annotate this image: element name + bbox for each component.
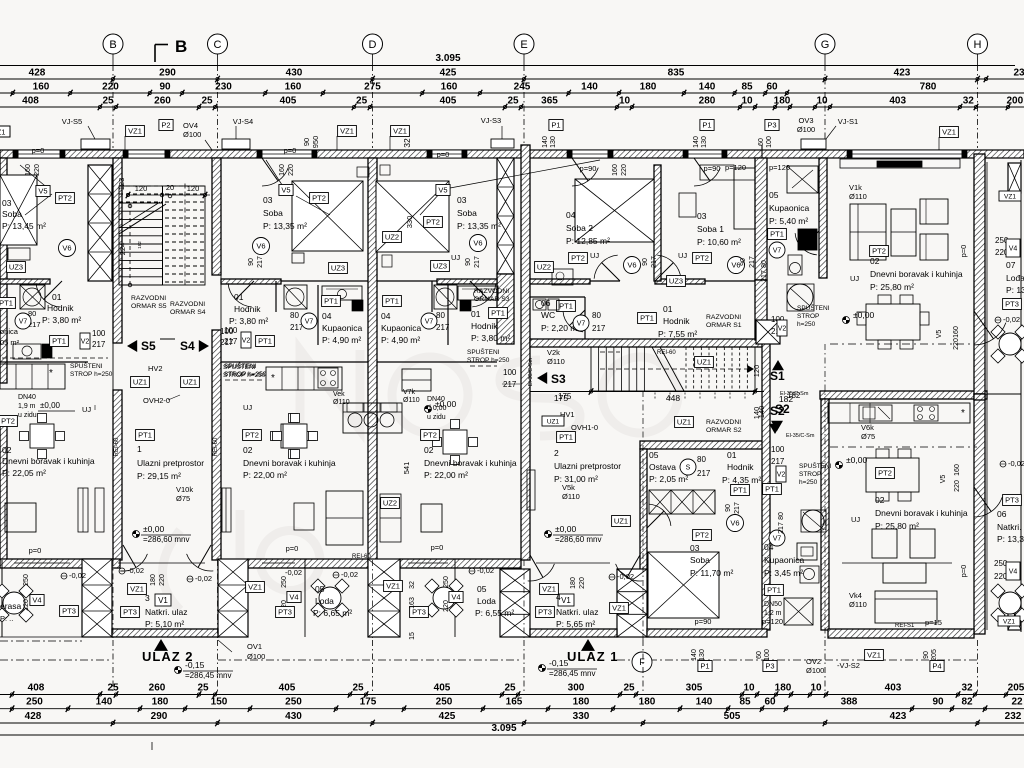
toilet+bidet unit C xyxy=(342,402,344,404)
svg-text:B: B xyxy=(175,37,187,56)
nightstand unit B xyxy=(292,253,304,263)
door soba2 top xyxy=(572,168,598,186)
svg-text:100: 100 xyxy=(220,327,234,336)
svg-text:PT1: PT1 xyxy=(733,486,747,495)
svg-text:WC: WC xyxy=(541,310,555,320)
svg-text:448: 448 xyxy=(666,393,680,403)
svg-text:217: 217 xyxy=(220,338,234,347)
svg-text:-0,02: -0,02 xyxy=(127,566,144,575)
svg-text:V6k: V6k xyxy=(861,423,874,432)
svg-text:Ø100: Ø100 xyxy=(183,130,201,139)
svg-text:140: 140 xyxy=(96,697,113,708)
svg-text:SPUŠTENI: SPUŠTENI xyxy=(797,303,830,312)
coffee table living2 xyxy=(883,563,926,583)
label VZ1 xyxy=(865,650,884,661)
svg-text:10: 10 xyxy=(619,96,631,107)
loggia round table bottom xyxy=(999,592,1021,614)
label PT2 xyxy=(310,193,329,204)
svg-text:60: 60 xyxy=(756,651,763,659)
wall xyxy=(828,629,974,638)
label V7 xyxy=(769,530,785,546)
wall pillar xyxy=(368,559,400,637)
bed unit A xyxy=(0,175,37,245)
svg-text:Ø75: Ø75 xyxy=(176,494,190,503)
svg-text:STROP h=250: STROP h=250 xyxy=(223,372,266,379)
window in top wall xyxy=(128,150,165,158)
svg-text:220: 220 xyxy=(621,164,628,176)
label PT2 xyxy=(876,468,895,479)
armchair living1 a xyxy=(920,199,948,224)
svg-text:P: 3,80 m²: P: 3,80 m² xyxy=(471,333,510,343)
svg-text:UZ1: UZ1 xyxy=(697,358,711,367)
svg-text:p=0: p=0 xyxy=(959,565,968,578)
svg-text:330: 330 xyxy=(405,216,414,229)
svg-text:=286,60 mnv: =286,60 mnv xyxy=(555,535,601,544)
dashed boundary living2 xyxy=(830,446,977,448)
svg-text:-0,02: -0,02 xyxy=(341,570,358,579)
label VZ1 xyxy=(391,126,410,137)
svg-text:V4: V4 xyxy=(32,596,41,605)
svg-text:60: 60 xyxy=(766,82,778,93)
wall xyxy=(819,158,827,278)
svg-text:80: 80 xyxy=(290,311,299,320)
svg-text:P: 12,85 m²: P: 12,85 m² xyxy=(566,236,610,246)
svg-text:=286,45 mnv: =286,45 mnv xyxy=(185,671,231,680)
svg-text:217: 217 xyxy=(749,256,756,268)
wall xyxy=(521,145,530,560)
svg-text:-0,02: -0,02 xyxy=(285,568,302,577)
svg-text:p=90: p=90 xyxy=(704,164,721,173)
svg-text:VZ1: VZ1 xyxy=(612,604,626,613)
svg-text:V7: V7 xyxy=(773,536,782,543)
bottom dim row 250/140/180 xyxy=(0,708,1024,710)
svg-text:02: 02 xyxy=(424,445,434,455)
armchair unit B xyxy=(294,503,314,530)
svg-text:1: 1 xyxy=(137,444,142,454)
bed unit B' xyxy=(376,181,449,252)
svg-text:60: 60 xyxy=(764,697,776,708)
label UZ1 xyxy=(675,417,694,428)
label PT2 xyxy=(56,193,75,204)
door unit B top xyxy=(262,168,288,186)
label PT1 xyxy=(638,313,657,324)
svg-text:VZ1: VZ1 xyxy=(1003,618,1015,625)
svg-text:100: 100 xyxy=(92,329,106,338)
svg-text:P: 6,65 m²: P: 6,65 m² xyxy=(313,608,352,618)
svg-text:80: 80 xyxy=(592,311,601,320)
washbasin unit B' xyxy=(458,286,498,300)
loggia D table xyxy=(433,587,455,609)
label Z1 (cut at edge) xyxy=(0,126,10,137)
svg-text:PT3: PT3 xyxy=(278,608,292,617)
svg-text:p=0: p=0 xyxy=(32,146,45,155)
grid bubble B xyxy=(103,34,123,54)
svg-text:180: 180 xyxy=(150,574,157,586)
svg-text:423: 423 xyxy=(894,68,911,79)
svg-text:25: 25 xyxy=(352,683,364,694)
grid line xyxy=(112,54,114,65)
armchair living2 b xyxy=(910,529,935,558)
svg-text:±0,00: ±0,00 xyxy=(853,310,874,320)
svg-text:Ø110: Ø110 xyxy=(849,192,867,201)
svg-text:Ø110: Ø110 xyxy=(849,600,867,609)
svg-text:V4: V4 xyxy=(451,593,460,602)
svg-text:03: 03 xyxy=(457,195,467,205)
svg-text:160: 160 xyxy=(33,82,50,93)
svg-text:Lođa: Lođa xyxy=(1006,273,1024,283)
label V4 xyxy=(1006,562,1020,580)
svg-text:P: 13,35 m²: P: 13,35 m² xyxy=(457,221,501,231)
window in top wall xyxy=(432,150,462,158)
entry2 doors xyxy=(528,564,555,581)
grid bubble G xyxy=(815,34,835,54)
svg-text:403: 403 xyxy=(889,96,906,107)
label V7 xyxy=(15,313,31,329)
svg-text:Ø110: Ø110 xyxy=(333,399,350,406)
svg-text:VJ-S5: VJ-S5 xyxy=(62,117,82,126)
dining table unit C xyxy=(283,424,307,448)
svg-text:d 0,00: d 0,00 xyxy=(427,405,447,412)
svg-text:02: 02 xyxy=(875,495,885,505)
window in top wall xyxy=(572,150,608,158)
svg-text:160: 160 xyxy=(441,82,458,93)
boiler kupaonica05 xyxy=(787,284,813,310)
svg-text:V4: V4 xyxy=(1009,569,1018,576)
svg-text:220: 220 xyxy=(954,480,961,492)
grid bubble E xyxy=(514,34,534,54)
label UZ3 xyxy=(667,276,686,287)
svg-text:PT1: PT1 xyxy=(491,309,505,318)
svg-text:p=90: p=90 xyxy=(695,617,712,626)
svg-text:V7: V7 xyxy=(19,319,28,326)
svg-text:Hodnik: Hodnik xyxy=(727,462,754,472)
svg-text:01: 01 xyxy=(471,309,481,319)
svg-text:32: 32 xyxy=(961,683,973,694)
svg-text:220: 220 xyxy=(288,164,295,176)
label PT1 xyxy=(557,301,576,312)
svg-text:P1: P1 xyxy=(702,121,711,130)
svg-text:100: 100 xyxy=(503,368,517,377)
svg-text:232: 232 xyxy=(1005,711,1022,722)
WC walls unit D xyxy=(530,296,585,298)
label V6 xyxy=(253,238,270,255)
svg-text:Hodnik: Hodnik xyxy=(234,304,261,314)
svg-text:Dnevni boravak i kuhinja: Dnevni boravak i kuhinja xyxy=(2,456,95,466)
kitchen strip living2 xyxy=(828,403,970,423)
svg-text:PT1: PT1 xyxy=(324,297,338,306)
door unit B' hodnik xyxy=(472,283,496,307)
svg-text:V7: V7 xyxy=(305,319,314,326)
svg-text:85: 85 xyxy=(741,82,753,93)
svg-text:32: 32 xyxy=(963,96,975,107)
svg-text:140: 140 xyxy=(542,136,549,148)
svg-text:VJ-S1: VJ-S1 xyxy=(838,117,858,126)
svg-text:180: 180 xyxy=(570,577,577,589)
WC pair at party wall xyxy=(343,403,402,433)
svg-text:275: 275 xyxy=(364,82,381,93)
svg-text:405: 405 xyxy=(440,96,457,107)
svg-text:90: 90 xyxy=(302,138,311,146)
svg-text:UZ3: UZ3 xyxy=(433,262,447,271)
level -0,02 xyxy=(333,572,339,578)
level -0,02 xyxy=(1000,461,1006,467)
svg-text:Dnevni boravak i kuhinja: Dnevni boravak i kuhinja xyxy=(870,269,963,279)
label PT1 xyxy=(256,336,275,347)
svg-text:UZ1: UZ1 xyxy=(133,378,147,387)
svg-text:PT1: PT1 xyxy=(52,337,66,346)
svg-text:H: H xyxy=(974,39,982,51)
svg-text:PT2: PT2 xyxy=(426,218,440,227)
svg-text:Dnevni boravak i kuhinja: Dnevni boravak i kuhinja xyxy=(424,458,517,468)
svg-text:S: S xyxy=(686,465,691,472)
svg-text:REI-S1: REI-S1 xyxy=(895,623,915,629)
svg-text:V1: V1 xyxy=(561,596,571,605)
svg-text:S2: S2 xyxy=(775,402,790,416)
svg-text:160: 160 xyxy=(953,326,960,338)
svg-text:ORMAR S4: ORMAR S4 xyxy=(170,309,206,316)
label PT1 xyxy=(383,296,402,307)
svg-text:OV1: OV1 xyxy=(247,642,262,651)
stair S2 lower flight dashes xyxy=(654,393,656,400)
window in top wall xyxy=(852,150,962,158)
label S xyxy=(680,459,696,475)
svg-text:VZ1: VZ1 xyxy=(128,127,142,136)
svg-text:25: 25 xyxy=(504,683,516,694)
svg-text:182: 182 xyxy=(137,241,142,249)
svg-text:405: 405 xyxy=(434,683,451,694)
svg-text:Vk4: Vk4 xyxy=(849,591,862,600)
svg-text:P3: P3 xyxy=(765,662,774,671)
washbasin right lower xyxy=(797,543,817,560)
svg-text:SPUŠTENI: SPUŠTENI xyxy=(799,461,832,470)
svg-text:250: 250 xyxy=(23,574,30,586)
svg-text:-0,02: -0,02 xyxy=(477,566,494,575)
svg-text:2: 2 xyxy=(554,448,559,458)
svg-text:B: B xyxy=(109,39,116,51)
wall pillar xyxy=(617,569,647,637)
label PT1 xyxy=(765,585,784,596)
label V5 xyxy=(36,186,50,197)
stairwell-2 stairs S3/S1 xyxy=(591,347,755,391)
entry1 doors xyxy=(121,554,148,571)
bed soba2 xyxy=(575,179,654,242)
label PT3 xyxy=(60,606,79,617)
svg-text:25: 25 xyxy=(102,96,114,107)
dining table living2 xyxy=(866,458,919,492)
grid line xyxy=(523,54,525,65)
svg-text:PT2: PT2 xyxy=(695,254,709,263)
svg-text:DN40: DN40 xyxy=(427,396,445,403)
grid bubble C xyxy=(208,34,228,54)
svg-text:V5: V5 xyxy=(438,186,447,195)
label PT2 xyxy=(569,253,588,264)
dining table unit B' xyxy=(443,430,467,454)
label PT3 xyxy=(410,607,429,618)
svg-text:UJ: UJ xyxy=(850,274,859,283)
wall pillar xyxy=(1008,600,1021,630)
svg-text:P4: P4 xyxy=(932,662,941,671)
svg-text:OVH1-0: OVH1-0 xyxy=(571,423,598,432)
shower unit B' xyxy=(434,285,457,309)
svg-text:onica: onica xyxy=(0,327,19,336)
svg-text:-0,02: -0,02 xyxy=(1003,315,1020,324)
grid line xyxy=(977,54,979,65)
svg-text:RAZVODNI: RAZVODNI xyxy=(170,301,205,308)
shower unit B xyxy=(284,285,307,309)
svg-text:P3: P3 xyxy=(767,121,776,130)
svg-text:UJ: UJ xyxy=(451,253,460,262)
svg-text:RAZVODNI: RAZVODNI xyxy=(706,419,741,426)
window bottom wall xyxy=(118,562,205,564)
armchair living2 a xyxy=(872,529,897,558)
shaft box VJ-S1 xyxy=(801,139,826,149)
svg-text:UZ3: UZ3 xyxy=(331,264,345,273)
grid line xyxy=(372,54,374,65)
svg-text:P2: P2 xyxy=(161,121,170,130)
svg-text:25: 25 xyxy=(356,96,368,107)
svg-text:1,2 m: 1,2 m xyxy=(764,610,782,617)
svg-text:Soba: Soba xyxy=(2,209,22,219)
label V7 xyxy=(421,313,437,329)
svg-text:160: 160 xyxy=(25,164,32,176)
grid bubble D xyxy=(363,34,383,54)
svg-text:V4: V4 xyxy=(289,593,298,602)
svg-text:STROP: STROP xyxy=(799,471,821,478)
svg-text:PT1: PT1 xyxy=(640,314,654,323)
label V6 xyxy=(470,235,487,252)
svg-text:-0,15: -0,15 xyxy=(549,658,569,668)
svg-text:Ostava: Ostava xyxy=(649,462,676,472)
svg-text:305: 305 xyxy=(686,683,703,694)
terrace bottom dash-dot lines xyxy=(0,636,82,638)
wardrobe unit B' xyxy=(380,494,401,542)
wall xyxy=(640,441,765,449)
wall pillar xyxy=(497,158,514,274)
S4 arrow xyxy=(199,340,209,352)
wall pillar xyxy=(500,569,530,637)
svg-text:03: 03 xyxy=(263,195,273,205)
top outer wall xyxy=(0,150,1024,158)
svg-text:V2: V2 xyxy=(778,326,787,333)
pillar wall left of stairwell xyxy=(88,165,112,281)
label V1 xyxy=(558,594,574,606)
svg-text:405: 405 xyxy=(280,96,297,107)
S2 arrow down xyxy=(771,421,783,431)
stairwell-1 right wall lower xyxy=(212,330,221,560)
svg-text:h=250: h=250 xyxy=(799,479,818,486)
wc kupaonica05 xyxy=(788,255,802,275)
desk soba1 xyxy=(679,193,696,217)
svg-text:505: 505 xyxy=(724,711,741,722)
svg-text:01: 01 xyxy=(234,292,244,302)
door soba2 xyxy=(594,255,618,279)
svg-text:p=120: p=120 xyxy=(769,163,790,172)
wardrobe unit B xyxy=(326,491,363,545)
label VZ1 xyxy=(999,191,1021,201)
door soba1 top xyxy=(694,168,720,186)
svg-text:Kupaonica: Kupaonica xyxy=(769,203,809,213)
shaft box VJ-S3 xyxy=(491,139,514,148)
label VZ1 xyxy=(998,616,1020,626)
label PT2 xyxy=(693,253,712,264)
label UZ1 xyxy=(131,377,150,388)
svg-text:224: 224 xyxy=(118,243,127,256)
svg-text:P: 25,80 m²: P: 25,80 m² xyxy=(870,282,914,292)
svg-text:PT1: PT1 xyxy=(258,337,272,346)
svg-text:03: 03 xyxy=(2,198,12,208)
svg-text:175: 175 xyxy=(360,697,377,708)
window bottom wall xyxy=(14,562,70,564)
svg-text:-VJ-S2: -VJ-S2 xyxy=(837,661,860,670)
svg-text:-0,02: -0,02 xyxy=(617,572,634,581)
svg-text:PT3: PT3 xyxy=(538,608,552,617)
label PT3 xyxy=(536,607,555,618)
svg-text:Loda: Loda xyxy=(315,596,334,606)
kitchen top strip living1 xyxy=(840,159,960,168)
svg-text:25: 25 xyxy=(201,96,213,107)
label UZ2 xyxy=(535,262,554,273)
svg-text:u zidu: u zidu xyxy=(427,414,446,421)
svg-text:220: 220 xyxy=(34,164,41,176)
svg-text:180: 180 xyxy=(152,697,169,708)
svg-text:Soba 2: Soba 2 xyxy=(566,223,593,233)
svg-text:p=0: p=0 xyxy=(431,543,444,552)
shaft box VJ-S4 xyxy=(222,139,250,149)
wall xyxy=(530,279,590,284)
svg-text:PT1: PT1 xyxy=(767,586,781,595)
svg-text:15: 15 xyxy=(409,632,416,640)
svg-text:V6: V6 xyxy=(473,239,482,248)
window square unit D xyxy=(421,504,442,532)
label UZ3 xyxy=(329,263,348,274)
bath right lower: shower circle xyxy=(802,510,824,532)
label PT1 xyxy=(731,485,750,496)
label PT1 xyxy=(763,484,782,495)
svg-text:ULAZ 2: ULAZ 2 xyxy=(142,649,194,664)
svg-text:Ø110: Ø110 xyxy=(562,492,580,501)
svg-text:60: 60 xyxy=(758,138,765,146)
svg-text:10: 10 xyxy=(816,96,828,107)
loggia outer right edge xyxy=(1020,160,1022,632)
svg-text:p=0: p=0 xyxy=(284,146,297,155)
svg-text:80: 80 xyxy=(761,260,768,268)
svg-text:PT2: PT2 xyxy=(58,194,72,203)
svg-text:P: 3,80 m²: P: 3,80 m² xyxy=(42,315,81,325)
svg-text:1,9 m: 1,9 m xyxy=(18,403,36,410)
svg-text:07: 07 xyxy=(1006,260,1016,270)
label UZ1 xyxy=(612,516,631,527)
loggia C table xyxy=(319,587,341,609)
radiator unit E xyxy=(527,470,535,510)
svg-text:01: 01 xyxy=(663,304,673,314)
svg-text:120: 120 xyxy=(752,365,761,378)
bottom grid dashed lines xyxy=(112,640,114,692)
svg-text:90: 90 xyxy=(923,651,930,659)
svg-text:02: 02 xyxy=(2,445,12,455)
window bottom wall xyxy=(262,562,295,564)
wall pillar xyxy=(756,320,780,344)
level mark xyxy=(133,531,140,538)
svg-text:UZ2: UZ2 xyxy=(383,499,397,508)
svg-text:PT1: PT1 xyxy=(385,297,399,306)
label PT1 xyxy=(557,432,576,443)
svg-text:P: 13,35 m²: P: 13,35 m² xyxy=(263,221,307,231)
door soba1 xyxy=(657,255,681,279)
svg-text:05 m²: 05 m² xyxy=(0,338,20,347)
svg-text:V2k: V2k xyxy=(547,348,560,357)
svg-text:VZ1: VZ1 xyxy=(340,127,354,136)
svg-text:82: 82 xyxy=(961,697,973,708)
